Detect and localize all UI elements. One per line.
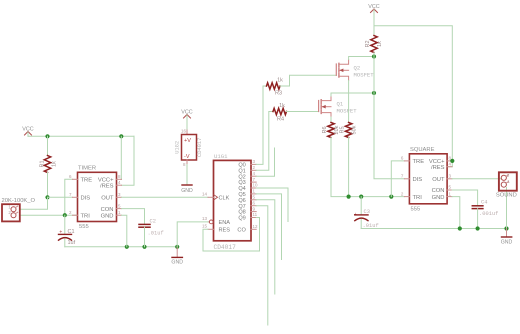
transistor Q2 MOSFET <box>335 64 337 75</box>
svg-text:1k: 1k <box>277 78 283 84</box>
pin 5 CON <box>117 208 122 210</box>
svg-text:555: 555 <box>79 224 89 230</box>
capacitor C4 .001uf <box>472 205 483 207</box>
wire Q0 to R3 <box>256 86 266 164</box>
wire pot pin2 / TRI net <box>20 214 78 216</box>
wire DIS to junction <box>48 196 73 198</box>
wire Q1 to R4 <box>256 112 273 171</box>
svg-text:20K-100K_O: 20K-100K_O <box>2 198 36 204</box>
svg-text:ENA: ENA <box>219 220 231 226</box>
svg-text:Q9: Q9 <box>238 216 245 222</box>
resistor R3 1k <box>267 83 281 89</box>
svg-text:.01uf: .01uf <box>363 223 379 229</box>
svg-text:SQUARE: SQUARE <box>410 147 435 153</box>
pin 7 DIS (SQUARE) <box>404 178 409 180</box>
pin 4 Q2 <box>251 175 256 177</box>
wire Q6 stub down <box>256 200 275 294</box>
pin 13 ENA inverted <box>208 221 209 223</box>
svg-text:CD4017: CD4017 <box>197 138 203 157</box>
node junction C2 <box>142 245 146 249</box>
pin 8 VCC+ (SQUARE) <box>447 160 452 162</box>
pin 5 Q6 <box>251 199 256 201</box>
capacitor C2 .01uf <box>139 223 150 225</box>
wire pot pin1 to DIS junction <box>20 197 48 209</box>
svg-text:U1G2: U1G2 <box>175 141 181 154</box>
svg-text:10: 10 <box>253 183 259 188</box>
pin 9 Q8 <box>251 211 256 213</box>
node junction Q2 drain <box>372 54 376 58</box>
pin 1 Q5 <box>251 193 256 195</box>
pin 14 CLK <box>208 196 214 198</box>
pin 8 stub U1G2 <box>186 160 188 165</box>
svg-text:50k: 50k <box>352 125 358 134</box>
node junction TRI/C1 <box>63 213 67 217</box>
svg-text:555: 555 <box>411 207 421 213</box>
svg-text:GND: GND <box>181 188 193 194</box>
svg-text:1k: 1k <box>377 41 383 47</box>
ground GND (left rail) <box>176 247 178 257</box>
pin 2 Q1 <box>251 169 256 171</box>
node junction VCC+ pin8 (SQUARE) <box>450 159 454 163</box>
pin 4 /RES <box>117 184 122 186</box>
svg-text:GND: GND <box>101 214 114 220</box>
pin 6 TRE <box>73 178 78 180</box>
node junction ENA/GND <box>175 245 179 249</box>
connector SOUND <box>499 172 517 190</box>
wire TRE tied to TRI rail <box>391 161 404 197</box>
node junction R1/VCC <box>45 134 49 138</box>
capacitor C3 .01uf <box>360 197 362 215</box>
svg-text:GND: GND <box>501 239 513 245</box>
wire Q2 stub up <box>256 148 274 176</box>
wire Q1 drain up to rail <box>331 93 374 96</box>
ground GND (right) <box>506 229 508 237</box>
node junction VCC+ pin8 <box>119 134 123 138</box>
wire GND pin to rail (SQUARE) <box>452 197 460 229</box>
capacitor C1 1uf <box>64 215 66 234</box>
wire VCC down to pin 8 <box>120 136 122 179</box>
pin 6 Q7 <box>251 205 256 207</box>
svg-text:R1: R1 <box>40 160 46 167</box>
wire R3 to Q2 gate <box>280 75 336 86</box>
pin 3 OUT <box>117 196 122 198</box>
wire R4 to Q1 gate <box>287 111 319 113</box>
wire ground rail right <box>361 228 506 230</box>
svg-text:R6: R6 <box>322 126 328 133</box>
svg-text:TRI: TRI <box>413 195 423 201</box>
pin 3 OUT (SQUARE) <box>447 178 452 180</box>
resistor R2 1k <box>371 36 377 53</box>
svg-text:CLK: CLK <box>219 195 230 201</box>
wire Q1 source to R6 <box>330 117 332 123</box>
node junction GND pin1 <box>125 245 129 249</box>
svg-text:DIS: DIS <box>81 196 91 202</box>
resistor R1 <box>47 136 49 155</box>
pin 7 Q3 <box>251 181 256 183</box>
svg-text:R3: R3 <box>275 91 282 97</box>
power gate U1G2 CD4017 <box>182 135 197 161</box>
svg-text:15: 15 <box>202 224 208 229</box>
node junction TRE riser <box>389 195 393 199</box>
wire VCC rail to TIMER <box>28 135 134 137</box>
pin 11 Q9 <box>251 217 256 219</box>
pin 2 TRI (SQUARE) <box>404 196 409 198</box>
svg-text:CON: CON <box>101 207 114 213</box>
wire OUT to CLK <box>122 196 209 198</box>
svg-text:13: 13 <box>202 216 208 221</box>
pin 10 Q4 <box>251 187 256 189</box>
node junction Q1 drain <box>372 91 376 95</box>
pin 2 TRI <box>73 214 78 216</box>
svg-text:/RES: /RES <box>100 184 114 190</box>
svg-text:MOSFET: MOSFET <box>354 71 375 78</box>
svg-text:.01uf: .01uf <box>148 231 164 237</box>
svg-text:SOUND: SOUND <box>496 193 517 199</box>
svg-text:C2: C2 <box>150 218 156 224</box>
wire SOUND pin1 down to rail <box>506 188 508 229</box>
svg-text:CON: CON <box>432 188 445 194</box>
wire 555 GND pin to rail <box>122 215 127 247</box>
svg-text:CD4017: CD4017 <box>214 244 237 251</box>
svg-text:CO: CO <box>237 227 246 233</box>
node junction C4 drop <box>476 226 480 230</box>
svg-text:C1: C1 <box>68 229 75 235</box>
pin 12 CO <box>251 228 256 230</box>
wire TRE tied to TRI <box>65 179 73 215</box>
resistor R4 1k <box>273 108 287 114</box>
wire Q2 source down to R5 <box>348 81 350 123</box>
wire R5 to TRI rail <box>348 138 350 197</box>
svg-text:TRI: TRI <box>81 214 91 220</box>
wire U1G2 to GND <box>186 165 188 185</box>
pin 8 VCC+ <box>117 178 122 180</box>
svg-text:/RES: /RES <box>431 165 445 171</box>
svg-text:OUT: OUT <box>432 177 445 183</box>
wire R6 to TRI rail <box>331 138 404 197</box>
svg-text:TRE: TRE <box>413 159 425 165</box>
pin 15 RES <box>208 228 214 230</box>
pin 5 CON (SQUARE) <box>447 189 452 191</box>
svg-text:-V: -V <box>184 154 190 160</box>
pin 1 GND <box>117 214 122 216</box>
svg-text:1k: 1k <box>52 161 58 167</box>
pin 1 GND (SQUARE) <box>447 196 452 198</box>
pin 7 DIS <box>73 196 78 198</box>
svg-text:C3: C3 <box>364 209 370 215</box>
wire CON to C2 <box>122 209 145 224</box>
svg-text:OUT: OUT <box>101 196 114 202</box>
resistor R6 20k <box>328 123 334 138</box>
svg-text:GND: GND <box>432 195 445 201</box>
wire ENA to ground rail <box>177 222 208 247</box>
ground GND (middle) <box>182 184 192 186</box>
node junction C3 <box>359 195 363 199</box>
svg-text:R5: R5 <box>340 126 346 133</box>
wire VCC to SQUARE VCC pin <box>374 26 452 167</box>
svg-text:11: 11 <box>253 212 258 217</box>
wire R2 to DIS pin <box>374 53 404 179</box>
svg-text:1uf: 1uf <box>68 240 76 246</box>
pin 4 /RES (SQUARE) <box>447 166 452 168</box>
node junction R5/rail <box>347 195 351 199</box>
pin 3 Q0 <box>251 163 256 165</box>
svg-text:TIMER: TIMER <box>78 166 96 172</box>
wire Q5 stub down <box>256 194 281 260</box>
svg-text:TRE: TRE <box>81 178 93 184</box>
wire OUT to SOUND <box>452 178 501 180</box>
node junction SOUND/GND <box>504 226 508 230</box>
svg-text:12: 12 <box>253 224 259 229</box>
svg-text:DIS: DIS <box>413 177 423 183</box>
wire CON to C4 <box>452 190 478 205</box>
wire Q2 drain to rail <box>349 57 374 60</box>
svg-text:.001uf: .001uf <box>479 211 498 217</box>
wire VCC loop to /RES pin 4 <box>122 136 135 185</box>
svg-text:R2: R2 <box>365 40 371 47</box>
transistor Q1 MOSFET <box>318 101 320 112</box>
wire Q7 stub down <box>256 206 268 325</box>
node junction GND pin drop <box>458 226 462 230</box>
pin 6 TRE (SQUARE) <box>404 160 409 162</box>
wire Q4 stub down <box>256 188 288 222</box>
svg-text:R4: R4 <box>277 117 284 123</box>
resistor R5 50k <box>345 123 351 138</box>
svg-text:GND: GND <box>171 260 183 266</box>
svg-text:16: 16 <box>181 129 187 134</box>
svg-text:14: 14 <box>202 192 208 197</box>
wire RES to Q9 loop <box>203 218 260 252</box>
svg-text:MOSFET: MOSFET <box>337 107 358 114</box>
pin 16 stub U1G2 <box>186 130 188 135</box>
svg-text:+V: +V <box>184 138 191 144</box>
svg-text:1k: 1k <box>279 103 285 109</box>
svg-text:RES: RES <box>219 227 231 233</box>
node junction R1/DIS/pot <box>45 195 49 199</box>
svg-text:U1G1: U1G1 <box>214 153 228 160</box>
svg-text:C4: C4 <box>481 199 487 205</box>
wire ground rail left <box>65 246 177 248</box>
